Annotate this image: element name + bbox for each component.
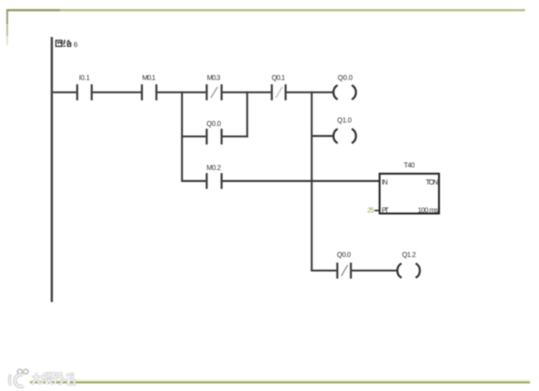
coil Q1.2 bbox=[397, 252, 420, 278]
svg-text:T40: T40 bbox=[404, 163, 415, 170]
contact Q0.1 (NC) bbox=[272, 75, 286, 100]
svg-text:PT: PT bbox=[382, 208, 390, 215]
wire rail to I0.1 bbox=[53, 91, 76, 93]
svg-text:6: 6 bbox=[74, 40, 78, 49]
timer U1 T40 TON box bbox=[380, 163, 439, 215]
svg-text:Q0.0: Q0.0 bbox=[207, 121, 222, 128]
svg-text:M0.1: M0.1 bbox=[142, 75, 156, 82]
contact M0.2 bbox=[207, 165, 222, 189]
left power rail bbox=[51, 37, 53, 302]
contact Q0.0 (parallel branch) bbox=[207, 121, 222, 145]
wire M0.2 to timer T40 IN bbox=[223, 180, 380, 182]
svg-text:M0.3: M0.3 bbox=[207, 75, 221, 82]
pin PT stub with value 25 bbox=[367, 208, 379, 215]
svg-text:Q0.1: Q0.1 bbox=[272, 75, 286, 82]
wire main drop at node C bbox=[311, 91, 313, 270]
svg-text:100 ms: 100 ms bbox=[418, 208, 439, 215]
wire node A down to contact Q0.0 bbox=[182, 135, 206, 137]
svg-text:I0.1: I0.1 bbox=[79, 75, 90, 82]
wire M0.1 to M0.3 through node A bbox=[157, 91, 206, 93]
wire Q0.1 to coil Q0.0 through node C bbox=[287, 91, 334, 93]
coil Q1.0 bbox=[333, 118, 356, 144]
wire riser node B bbox=[246, 91, 248, 137]
wire contact Q0.0 to coil Q1.2 bbox=[352, 270, 397, 272]
svg-text:IN: IN bbox=[382, 179, 388, 186]
contact I0.1 bbox=[77, 75, 92, 100]
contact M0.1 bbox=[142, 75, 157, 100]
net label 网络 6 bbox=[56, 40, 78, 49]
wire node C to coil Q1.0 bbox=[312, 135, 334, 137]
svg-text:Q1.2: Q1.2 bbox=[402, 252, 416, 259]
svg-text:TON: TON bbox=[426, 179, 439, 186]
svg-text:25: 25 bbox=[367, 208, 374, 215]
svg-text:Q0.0: Q0.0 bbox=[337, 252, 351, 259]
wire contact Q0.0 to node B riser bbox=[223, 135, 249, 137]
wire node A down to contact M0.2 bbox=[182, 180, 206, 182]
contact Q0.0 (NC, bottom rung) bbox=[337, 252, 351, 278]
svg-text:Q0.0: Q0.0 bbox=[338, 75, 353, 82]
svg-text:M0.2: M0.2 bbox=[207, 165, 222, 172]
coil Q0.0 bbox=[333, 75, 356, 100]
wire I0.1 to M0.1 bbox=[93, 91, 141, 93]
wire node C to bottom rung contact Q0.0 bbox=[311, 270, 337, 272]
watermark (decorative, unlabeled) bbox=[9, 369, 74, 386]
svg-text:Q1.0: Q1.0 bbox=[337, 118, 352, 125]
wire M0.3 to Q0.1 through node B bbox=[223, 91, 271, 93]
contact M0.3 (NC) bbox=[207, 75, 222, 100]
wire branch vertical at node A bbox=[181, 91, 183, 181]
